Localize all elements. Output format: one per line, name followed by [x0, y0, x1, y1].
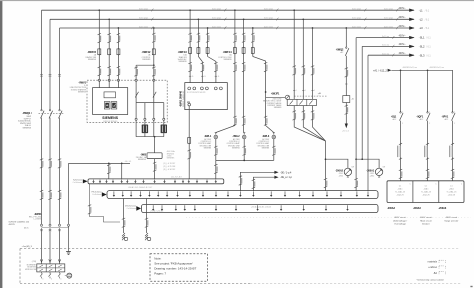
wire label colA wire 3	[311, 66, 315, 75]
GWV1 PE terminal	[188, 103, 191, 106]
wire label GWL1 wire2	[233, 116, 237, 125]
svg-text:SIEMENS: SIEMENS	[102, 116, 119, 120]
svg-text:-0WF13: -0WF13	[178, 51, 188, 54]
svg-text:-200A3: -200A3	[438, 207, 447, 210]
terminal PE bar 113.9	[113, 191, 115, 197]
wire feed GWF15 pole 3	[117, 28, 119, 88]
soft starter internal switch marks	[135, 92, 156, 98]
floor dashed enclosure	[20, 248, 212, 250]
pin tick 202.3	[201, 76, 206, 78]
wire label GWF15-2 lower	[108, 66, 112, 75]
svg-text:3x2,5 gnge: 3x2,5 gnge	[212, 26, 221, 28]
wire motor feed upper	[154, 137, 156, 153]
terminal ZSV bar 236	[235, 205, 237, 211]
wire label link wire no	[88, 205, 92, 214]
wire -0PV1 lower	[452, 121, 454, 181]
terminal PE bar 356.9	[356, 191, 358, 197]
wire motor-breaker feed 3	[312, 28, 314, 99]
wire cable phase L1 upper	[41, 10, 43, 110]
soft starter dashed enclosure GWV1	[87, 80, 167, 122]
wire label GWQ2 wire	[345, 68, 349, 77]
terminal ZSV bar 175.9	[175, 205, 177, 211]
svg-text:400V~: 400V~	[399, 52, 407, 55]
svg-text:-0PV1: -0PV1	[442, 116, 449, 119]
wire label GWL1 wire	[233, 62, 237, 71]
svg-text:/ 6.1: / 6.1	[425, 10, 430, 12]
svg-text:+A1 / -612_2: +A1 / -612_2	[373, 69, 387, 72]
cable gland L2	[49, 224, 52, 231]
terminal ZSV bar 194.9	[194, 205, 196, 211]
terminal N bar 207	[206, 180, 208, 184]
wire label colA wire2 3	[311, 111, 315, 120]
wire label PE drop wire 146.5	[145, 218, 149, 227]
terminal N bar 183	[182, 180, 184, 184]
wire label loop2 wire	[354, 178, 358, 187]
terminal PE bar 158.2	[157, 191, 159, 197]
svg-text:3x1,5 sw: 3x1,5 sw	[382, 36, 390, 38]
wire label -0QF1 lower tag	[426, 169, 430, 178]
fuse element GWF13-1	[189, 47, 192, 54]
sheet-reference arrow -SL1	[399, 34, 432, 39]
overload CT at x144.9	[142, 125, 148, 134]
fuse element GWF13-3	[206, 47, 209, 54]
device button 1	[104, 102, 110, 109]
junction	[252, 27, 254, 29]
junction	[98, 9, 100, 11]
wire GWQ2 middle	[345, 56, 347, 96]
junction	[312, 27, 314, 29]
svg-text:T1_20A1_1S: T1_20A1_1S	[446, 191, 457, 194]
junction	[234, 9, 236, 11]
svg-text:MICROSOCKE: MICROSOCKE	[25, 269, 36, 271]
terminal N bar 135.4	[134, 180, 136, 184]
cable gland L3	[58, 224, 61, 231]
wire label motor feed wire no	[153, 162, 157, 171]
wire label ref wire no 2	[252, 179, 256, 188]
svg-text:400/230V 3x1,5 sw: 400/230V 3x1,5 sw	[430, 67, 445, 69]
svg-text:-20A.1: -20A.1	[423, 188, 428, 191]
junction	[154, 136, 156, 138]
wire motor-breaker feed 2	[302, 19, 304, 99]
fuse element PE inline element	[188, 137, 191, 144]
junction	[400, 69, 402, 71]
note box	[150, 254, 208, 282]
pin tick 190.1	[189, 76, 194, 78]
svg-text:3x2,5 gnge: 3x2,5 gnge	[264, 18, 273, 20]
overload CT at x163.8	[161, 125, 167, 134]
terminal N bar 143.5	[142, 180, 144, 184]
motor protection breaker +A4	[287, 99, 316, 105]
svg-text:400V~: 400V~	[399, 16, 407, 19]
terminal N bar 215.8	[215, 180, 217, 184]
svg-text:SIEMENS: SIEMENS	[179, 61, 188, 63]
svg-text:1L: 1L	[192, 76, 194, 78]
earth symbol	[66, 252, 71, 255]
wire label colA wire2 2	[302, 111, 306, 120]
svg-text:Undervoltage /: Undervoltage /	[393, 219, 408, 222]
wire GWF13 pole 3 upper	[207, 28, 209, 57]
junction	[355, 158, 357, 160]
terminal ZSV bar 216	[215, 205, 217, 211]
svg-text:SIEMENS: SIEMENS	[204, 147, 212, 149]
svg-text:-.1: -.1	[318, 95, 320, 97]
svg-text:-2W.2: -2W.2	[339, 175, 343, 177]
cable terminal tick L3	[58, 75, 61, 77]
svg-text:-20Q1.2S: -20Q1.2S	[422, 195, 430, 197]
device display	[104, 92, 116, 98]
svg-text:3x2,5 gnge: 3x2,5 gnge	[139, 26, 148, 28]
wire starter output 163.8	[163, 103, 165, 123]
junction	[265, 91, 267, 93]
junction	[189, 9, 191, 11]
wire GWL1 feed	[216, 57, 235, 135]
wire cable phase L3 upper	[59, 28, 61, 110]
wire label -0WL1 wire no	[214, 146, 218, 155]
cable screen line	[42, 227, 69, 229]
wire GWF14 pole 1 upper	[234, 10, 236, 56]
power section box GWV1	[185, 83, 228, 110]
wire GWL join rail	[216, 159, 274, 161]
wire cable phase L1 lower	[41, 228, 43, 264]
meter -200A2	[344, 168, 351, 177]
junction	[361, 158, 363, 160]
pin tick 215.9	[215, 76, 220, 78]
svg-text:1L1 2T1 3L2 4T2 5L3 6T3: 1L1 2T1 3L2 4T2 5L3 6T3	[187, 92, 206, 94]
terminal ZSV bar 257.6	[256, 205, 258, 211]
sheet-reference arrow -L1	[399, 7, 430, 12]
svg-text:SIEMENS: SIEMENS	[138, 159, 147, 161]
device box GW3	[147, 153, 162, 159]
wire branch 2 upper	[427, 70, 429, 112]
bus bar N (bar A)	[88, 179, 224, 184]
soft starter device box	[93, 88, 128, 115]
svg-text:T1_20A1_1S: T1_20A1_1S	[421, 191, 432, 194]
junction	[108, 18, 110, 20]
svg-text:-0WQ1 \: -0WQ1 \	[22, 111, 32, 115]
svg-text:SIEMENS: SIEMENS	[88, 59, 97, 61]
switch disconnector pole L3	[59, 110, 63, 119]
svg-text:3x1,5 sw: 3x1,5 sw	[382, 54, 390, 56]
wire label cable L3 wire number 2	[58, 190, 62, 199]
svg-text:-200.A.4 -200.A.5 -200.A.6: -200.A.4 -200.A.5 -200.A.6	[251, 206, 271, 209]
wire feed GWF15 pole 1	[98, 10, 100, 87]
svg-text:2: 2	[429, 123, 430, 125]
wire label GWF14-1 upper	[233, 33, 237, 42]
GWQ2 tick	[345, 83, 347, 85]
wire PE drop 146.5	[146, 199, 148, 234]
svg-text:3x2,5 gnge: 3x2,5 gnge	[212, 18, 221, 20]
svg-text:L+XXXXX: L+XXXXX	[33, 219, 42, 221]
terminal PE bar 189.9	[189, 191, 191, 197]
sheet-reference arrow -L3	[399, 25, 430, 30]
junction	[243, 160, 245, 162]
wire GWJF1 tap wire	[266, 96, 286, 98]
svg-text:-L2: -L2	[419, 17, 423, 21]
terminal PE bar 140.5	[139, 191, 141, 197]
svg-text:Note:: Note:	[154, 257, 161, 261]
svg-text:-20A.1: -20A.1	[398, 188, 403, 191]
wire cable phase L1 middle	[41, 118, 43, 225]
contact point output contact 153.8	[153, 118, 155, 120]
bus bar PE (bar B)	[107, 191, 378, 199]
wire PE drop 123.5	[123, 199, 125, 234]
terminal PE bar 253.4	[252, 191, 254, 197]
svg-text:materials: materials	[428, 260, 438, 263]
svg-text:3x2,5 gnge: 3x2,5 gnge	[384, 18, 393, 20]
svg-text:-0E / 1-p.4: -0E / 1-p.4	[280, 171, 292, 174]
svg-text:Drawing number: 143-14-25-BT: Drawing number: 143-14-25-BT	[154, 267, 196, 271]
svg-text:0,1: 0,1	[450, 186, 452, 188]
wire colA lower 3	[312, 106, 314, 123]
sheet-reference arrow -L2	[399, 16, 430, 21]
terminal PE bar 285	[284, 191, 286, 197]
wire feed GWF12 drop	[153, 28, 155, 65]
contact point enclosure entry 2	[108, 79, 110, 81]
bus wire number labels	[139, 9, 153, 12]
wire aux drop 2	[121, 163, 123, 179]
svg-text:-A1.2: -A1.2	[444, 118, 448, 121]
meter symbol GWJF1	[285, 95, 289, 99]
wire bus L2	[50, 18, 414, 20]
wire GWL down to N bar	[215, 160, 217, 179]
junction	[153, 64, 155, 66]
terminal N bar 127.3	[126, 180, 128, 184]
terminal N bar 121.7	[121, 180, 123, 184]
svg-text:400V~: 400V~	[399, 34, 407, 37]
terminal PE bar 327	[326, 191, 328, 197]
wire colA converge 3	[313, 123, 326, 141]
svg-text:-0WL1: -0WL1	[204, 135, 212, 138]
wire GWF13-2 lower jog	[198, 57, 202, 83]
junction	[243, 18, 245, 20]
disconnector GWQ1 mechanical link	[39, 113, 65, 115]
terminal PE bar 122.8	[122, 191, 124, 197]
terminal N bar 106.5	[105, 180, 107, 184]
terminal PE bar 216	[215, 191, 217, 197]
svg-text:(3) ⎣⌄0 34 .512: (3) ⎣⌄0 34 .512	[163, 168, 175, 171]
svg-text:3x2,5 gnge: 3x2,5 gnge	[212, 9, 221, 11]
corner tick	[470, 286, 472, 287]
cable tag -0Q1	[397, 143, 402, 159]
wire GWF14 pole 3 upper	[252, 28, 254, 57]
svg-text:3x2,5 gnge: 3x2,5 gnge	[352, 9, 361, 11]
wire label cable L1 wire number	[40, 159, 44, 168]
wire GWL3 feed	[253, 57, 274, 135]
svg-text:-BA: -BA	[433, 272, 437, 275]
wire label GWF13-3 upper	[206, 33, 210, 42]
svg-text:Surge arrester: Surge arrester	[444, 219, 458, 222]
wire colA lower 1	[293, 106, 295, 123]
svg-text:b: b	[43, 278, 44, 280]
wire starter output 144.9	[144, 103, 146, 123]
terminal/relay assembly	[37, 264, 65, 272]
wire bus L1	[42, 9, 415, 11]
svg-text:2: 2	[402, 123, 403, 125]
junction	[207, 27, 209, 29]
terminal N bar 113	[112, 180, 114, 184]
fuse element GWF14-1	[233, 47, 236, 54]
wire colA lower 2	[302, 106, 304, 123]
wire label GWL3 wire2	[264, 116, 268, 125]
contact point output contact 136.1	[135, 118, 137, 120]
terminal PE bar 228	[227, 191, 229, 197]
svg-text:Pages: 7: Pages: 7	[154, 272, 166, 276]
earth clamp at 146.5	[145, 233, 151, 241]
wire right dist bus	[391, 70, 452, 112]
svg-text:Cu-Schiene: Cu-Schiene	[92, 194, 101, 196]
wire aux drop 1	[108, 163, 110, 179]
sheet-reference arrow -SL3	[399, 52, 432, 57]
svg-text:-L1: -L1	[419, 8, 423, 12]
junction	[198, 18, 200, 20]
wire bus stub SL3	[368, 54, 414, 56]
GWV1 terminal 189.2	[188, 87, 191, 90]
wire label GWL2 wire2	[242, 116, 246, 125]
svg-text:/ 6.1: / 6.1	[426, 47, 431, 49]
svg-text:25 m: 25 m	[24, 228, 29, 230]
terminal PE bar 271.2	[270, 191, 272, 197]
svg-text:SIEMENS: SIEMENS	[22, 128, 31, 130]
contact point enclosure entry 3	[117, 79, 119, 81]
wire control feed at x153.8	[153, 65, 155, 102]
terminal PE bar 313	[312, 191, 314, 197]
wire bus stub SL1	[356, 37, 414, 39]
wire label PE drop wire 123.5	[122, 218, 126, 227]
wire feed GWF15 pole 2	[108, 19, 110, 87]
svg-text:-A2: -A2	[351, 98, 354, 101]
wire output merge rail	[136, 136, 164, 138]
svg-text:kW: kW	[352, 166, 355, 168]
svg-text:-0WF12: -0WF12	[142, 51, 152, 54]
wire loop1 feed	[325, 141, 327, 159]
wire loop1 top	[326, 159, 348, 168]
svg-text:SIEMENS: SIEMENS	[142, 59, 151, 61]
wire loop1 down	[325, 159, 327, 190]
wire label -0WL2 wire no	[243, 146, 247, 155]
wire label GWF15-1 lower	[98, 66, 102, 75]
GWQ2 end arrow	[345, 124, 348, 129]
GWV1 terminal 220.9	[220, 87, 223, 90]
junction	[118, 27, 120, 29]
svg-text:-(T.B): -(T.B)	[32, 261, 37, 263]
contact point output contact 144.9	[144, 118, 146, 120]
wire PE lower riser	[68, 226, 70, 251]
terminal PE bar 341	[340, 191, 342, 197]
svg-text:3x2,5 gnge: 3x2,5 gnge	[352, 26, 361, 28]
wire ref wire -0E	[240, 172, 274, 190]
junction	[427, 69, 429, 71]
wire output down 136.1	[135, 122, 137, 136]
svg-text:-0E_a / 1-p: -0E_a / 1-p	[280, 176, 292, 179]
wire label -0WL3 wire no	[272, 146, 276, 155]
svg-text:-SL1: -SL1	[419, 36, 425, 40]
wire label -0PV1 lower tag	[451, 169, 455, 178]
wire label PE wire number	[188, 150, 192, 159]
earth clamp at 123.5	[122, 233, 128, 241]
contact point enclosure entry 153.8	[153, 79, 155, 81]
svg-text:-0Q1: -0Q1	[391, 116, 397, 119]
pin mark 294.2	[293, 90, 297, 92]
wire cable phase L2 middle	[49, 118, 51, 225]
junction	[293, 9, 295, 11]
wire GWF13 pole 1 upper	[189, 10, 191, 56]
svg-text:-0WV1: -0WV1	[78, 81, 86, 84]
wire label colA wire 2	[302, 66, 306, 75]
terminal N bar 164.5	[163, 180, 165, 184]
wire GWF13 pole 2 upper	[197, 19, 199, 56]
fuse element GWF15-1	[98, 48, 101, 55]
svg-text:400V~: 400V~	[399, 43, 407, 46]
svg-text:(2) ⎣⌄0 25 .518: (2) ⎣⌄0 25 .518	[163, 165, 175, 168]
svg-text:-0L / -L1: -0L / -L1	[125, 161, 132, 163]
svg-text:3x1,5 sw: 3x1,5 sw	[382, 45, 390, 47]
terminal PE bar 240.4	[239, 191, 241, 197]
svg-text:Main circuit: Main circuit	[420, 219, 431, 222]
cable terminal tick L1	[40, 75, 43, 77]
wire motor-breaker feed 1	[293, 10, 295, 99]
wire label GWV1 input 190.1	[188, 62, 192, 71]
svg-text:-20A.1: -20A.1	[449, 188, 454, 191]
junction	[345, 27, 347, 29]
wire label GWF14-2 upper	[242, 33, 246, 42]
svg-text:-200A3: -200A3	[387, 207, 396, 210]
wire GWF13-1 lower	[189, 57, 191, 83]
wire GWV1 PE down	[188, 106, 190, 179]
wire label cable L2 wire number 2	[48, 190, 52, 199]
svg-text:3x2,5 gnge: 3x2,5 gnge	[352, 18, 361, 20]
wire label GWF13-1 upper	[188, 33, 192, 42]
wire label cable L1 wire number 2	[40, 190, 44, 199]
svg-text:-0WF15: -0WF15	[87, 51, 97, 54]
svg-text:SIEMENS: SIEMENS	[232, 147, 240, 149]
svg-text:-20Q1.2S: -20Q1.2S	[448, 195, 456, 197]
svg-text:400V~: 400V~	[399, 7, 407, 10]
svg-text:-0WF14: -0WF14	[223, 51, 233, 54]
terminal PE bar 177.5	[176, 191, 178, 197]
svg-text:MOUNTING: MOUNTING	[27, 267, 36, 269]
svg-text:-L3: -L3	[419, 26, 423, 30]
terminal ZSV bar 162	[161, 205, 163, 211]
sheet-reference arrow -SL2	[399, 43, 432, 48]
terminal PE bar 167.1	[166, 191, 168, 197]
svg-text:3x2,5 gnge: 3x2,5 gnge	[139, 18, 148, 20]
wire label GWF15-2 upper	[108, 33, 112, 42]
svg-text:SIEMENS: SIEMENS	[274, 107, 282, 109]
svg-text:-0QF1: -0QF1	[416, 116, 423, 119]
svg-text:SIEMENS: SIEMENS	[167, 158, 175, 160]
wire starter output 136.1	[135, 103, 137, 123]
junction	[153, 27, 155, 29]
+A4 linkage	[294, 95, 327, 97]
indicator lamp -0WL3	[272, 135, 276, 139]
svg-text:/ 6.1: / 6.1	[426, 55, 431, 57]
terminal N bar 197	[196, 180, 198, 184]
cable tag -0QF1	[424, 143, 429, 159]
svg-text:1L: 1L	[218, 76, 220, 78]
wire GWF13-3 lower jog	[208, 57, 216, 83]
sheet left edge strip	[0, 0, 2, 288]
svg-text:1: 1	[402, 111, 403, 113]
svg-text:-200A3: -200A3	[413, 207, 422, 210]
svg-text:-A1.2: -A1.2	[419, 118, 423, 121]
wire PE riser	[68, 163, 70, 224]
svg-text:-X1 / 2.4: -X1 / 2.4	[342, 131, 349, 133]
wire label aux wire no	[107, 164, 111, 173]
wire label GWF13-2 upper	[197, 33, 201, 42]
device button 2	[111, 102, 117, 109]
svg-text:2: 2	[454, 123, 455, 125]
wire cable phase L3 lower	[59, 228, 61, 264]
